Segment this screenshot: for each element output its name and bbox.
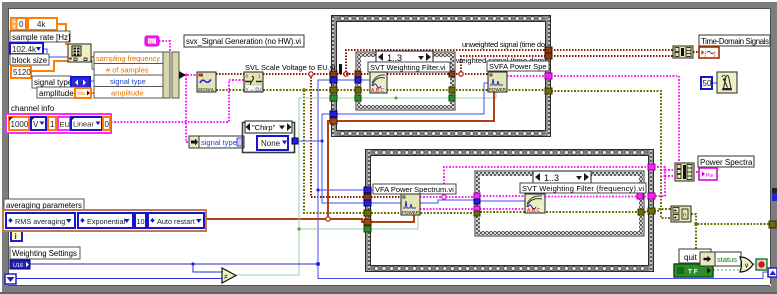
svg-text:10: 10 — [137, 217, 145, 226]
svg-text:A,B,C: A,B,C — [527, 208, 540, 214]
black bar marker — [339, 64, 342, 74]
case structure 2 (SVT weighting frequency) — [475, 171, 644, 236]
indicator Time-Domain Signals terminal — [699, 47, 719, 58]
wire error yellow case2 to seq2 tunnel — [644, 211, 648, 212]
numeric constant 50 — [701, 77, 712, 89]
svg-text:# of samples: # of samples — [106, 66, 149, 75]
seq1 left tunnel maroon unweighted — [330, 71, 337, 77]
wire magenta inside case2 to SVT freq icon — [480, 195, 525, 197]
wire error yellow seq2 tunnel to case2 — [371, 212, 475, 214]
junction green below SVT icon — [395, 97, 398, 100]
svg-text:POWER: POWER — [402, 210, 420, 215]
wire rust up to sequence1 tunnel — [328, 121, 331, 219]
case1 tunnel green left — [355, 95, 361, 101]
svg-text:status: status — [717, 255, 737, 264]
svg-text:"Chirp": "Chirp" — [252, 123, 276, 132]
wire blue enum const to bundle row3 — [90, 80, 94, 82]
case structure 1 (SVT weighting) — [356, 52, 455, 110]
wire maroon waveform branch down to sequence2 — [311, 77, 365, 197]
wire maroon unweighted to build array in1 — [551, 49, 673, 51]
wire maroon build array to time-domain indicator — [693, 51, 699, 53]
seq1 left tunnel yellow error — [330, 87, 337, 93]
wire error yellow across case2 — [480, 211, 639, 213]
frame tunnel yellow error out — [769, 221, 776, 228]
vi icon SVFA Power Spectrum — [488, 72, 507, 92]
numeric constant 5120 — [11, 66, 31, 78]
control terminal quit TF — [674, 264, 713, 277]
flat sequence structure 2 (bottom) — [365, 149, 654, 272]
wire orange 5120 to config vi — [31, 61, 68, 71]
svg-text:signal type: signal type — [110, 77, 146, 86]
svg-text:VFA Power Spectrum.vi: VFA Power Spectrum.vi — [375, 185, 454, 194]
wire error yellow signal gen to V-EU — [216, 89, 244, 91]
svg-text:sample rate [Hz]: sample rate [Hz] — [12, 33, 70, 42]
junction magenta row3 — [663, 174, 666, 177]
case2 tunnel yellow right — [638, 209, 644, 215]
svg-text:50: 50 — [703, 79, 712, 88]
svg-text:i: i — [15, 232, 17, 241]
wire maroon SVT out to SVFA — [387, 73, 488, 75]
wire rust seq2 tunnel to VFA bottom — [371, 215, 414, 222]
wire config vi to bundle row2 — [91, 60, 94, 69]
wire blue inside seq1 under case to SVFA — [337, 83, 488, 114]
wire blue chirp case output — [297, 140, 322, 142]
case1 selector label — [376, 51, 433, 63]
seq1 left tunnel rust — [330, 118, 337, 124]
svg-text:Linear: Linear — [73, 120, 94, 129]
wire blue branch to sequence2 tunnel — [318, 189, 365, 191]
svg-text:Pw: Pw — [706, 173, 713, 179]
svg-text:Power Spectra: Power Spectra — [700, 158, 753, 167]
wire magenta seq2 tunnels to power spectra build array — [654, 167, 665, 196]
seq2 left tunnel rust — [364, 219, 371, 225]
case structure chirp — [243, 121, 295, 153]
label averaging parameters — [4, 199, 84, 210]
ring constant 102.4k — [10, 43, 43, 54]
wire blue weighting selector from U16 net down left of sequence1 — [318, 80, 768, 279]
right shift register — [768, 268, 777, 277]
seq1 left tunnel green — [330, 95, 337, 101]
svg-text:sampling frequency: sampling frequency — [96, 54, 160, 63]
svg-text:signal type: signal type — [201, 138, 237, 147]
junction blue u16 — [191, 262, 194, 265]
label quit — [679, 249, 711, 263]
wire orange config vi to bundle row1 — [91, 56, 94, 58]
iteration terminal i — [11, 230, 22, 241]
ring constant None inside chirp case — [257, 136, 288, 150]
wire magenta VFA lower out to case2 — [420, 208, 475, 210]
wire rust to sequence2 tunnel — [328, 219, 365, 222]
wire blue sequence1 tunnel to sequence2 tunnel — [322, 114, 365, 203]
wire magenta TD6 constant to bundle — [159, 41, 170, 52]
junction error yellow — [694, 222, 698, 226]
case1 tunnel maroon right — [449, 71, 455, 77]
svg-text:4k: 4k — [37, 20, 46, 29]
vi icon wait until next ms multiple — [717, 72, 737, 93]
wire maroon waveform V-EU to sequence1 tunnel — [263, 73, 331, 75]
case2 tunnel magenta right — [637, 193, 643, 199]
svg-text:EU: EU — [60, 120, 70, 129]
svg-text:∨: ∨ — [744, 263, 749, 270]
label svx_Signal Generation (no HW).vi — [184, 35, 304, 47]
svg-text:0: 0 — [105, 120, 110, 129]
wire blue seq2 tunnel to case2 — [371, 200, 475, 203]
seq2 right tunnel magenta lower — [648, 193, 655, 199]
wire blue branch to comparator top input — [193, 264, 222, 272]
vi icon VFA Power Spectrum — [401, 194, 420, 215]
wire blue inside seq1 to SVT icon — [337, 79, 370, 81]
svg-text:svx_Signal Generation (no HW).: svx_Signal Generation (no HW).vi — [186, 37, 301, 46]
svg-text:V: V — [33, 120, 39, 129]
case2 tunnel blue left — [474, 199, 480, 204]
wire maroon dotted weighted signal tap — [461, 56, 545, 72]
vi icon SVT Weighting Filter — [370, 72, 387, 94]
label block size — [10, 54, 49, 65]
wire boolean status to or gate — [741, 259, 746, 261]
svg-text:Time-Domain Signals: Time-Domain Signals — [701, 37, 769, 46]
cluster averaging parameters — [3, 210, 206, 231]
label SVT Weighting Filter.vi — [368, 62, 450, 72]
svg-text:5120: 5120 — [13, 68, 31, 77]
svg-text:Exponential: Exponential — [87, 217, 126, 226]
wire error yellow seq1 out turning down — [551, 91, 671, 218]
clipped indicator on right frame — [772, 188, 777, 201]
svg-text:n: n — [683, 213, 686, 219]
wire rust inside seq1 to SVFA averaging input — [337, 92, 494, 121]
wire error yellow build array2 out to frame tunnel and status — [691, 214, 770, 224]
channel info cluster constant — [6, 114, 111, 133]
seq1 right tunnel maroon unweighted out — [545, 47, 552, 53]
seq2 left tunnel green — [364, 226, 371, 232]
typedef constant TD6 magenta — [145, 36, 159, 46]
wire blue left shift register to comparator bottom input — [16, 278, 222, 280]
breakpoint circle magenta VFA — [442, 195, 446, 199]
wire orange 4k to config vi — [57, 24, 68, 44]
wire maroon weighted to build array in2 — [551, 55, 673, 57]
wire magenta lower inside case2 — [480, 208, 525, 210]
junction magenta row2 — [663, 168, 666, 171]
svg-text:SVFA Power Spe: SVFA Power Spe — [489, 62, 547, 71]
vi icon SVL scale voltage to EU — [244, 72, 263, 92]
wire blue 50 to wait ms — [712, 82, 717, 84]
junction blue seq2 branch — [316, 188, 319, 191]
label status indicator — [715, 252, 741, 266]
case1 tunnel maroon left — [355, 71, 361, 77]
wire blue 102.4k ring to config vi — [43, 49, 68, 57]
vi icon svx signal generation — [197, 72, 216, 92]
wire boolean or gate to stop terminal — [753, 263, 756, 265]
wire maroon seq2 tunnel to VFA icon — [371, 196, 401, 198]
wire blue seq2 tunnel to VFA icon top — [371, 190, 400, 194]
wire error yellow seq2 out to build array2 — [654, 209, 671, 211]
left shift register — [5, 274, 16, 284]
svg-text:≠: ≠ — [224, 274, 228, 281]
build array spectra collector yellow — [671, 206, 691, 222]
svg-text:U16: U16 — [13, 263, 23, 269]
svg-text:0: 0 — [19, 20, 24, 29]
build array time-domain — [673, 46, 693, 58]
or gate — [740, 257, 753, 272]
svg-text:POWER: POWER — [489, 87, 507, 92]
comparator not equal — [222, 268, 236, 283]
wire green inside seq1 to SVFA error in — [337, 92, 496, 98]
seq1 left tunnel blue — [330, 77, 337, 83]
unbundle status node — [700, 252, 715, 266]
wire error yellow branch down to sequence2 — [304, 90, 365, 213]
case2 selector label — [533, 171, 591, 183]
wire magenta VFA out to case2 — [420, 196, 475, 198]
case1 tunnel blue left — [355, 77, 361, 83]
vi icon config (build waveform) — [68, 44, 91, 62]
seq2 left tunnel blue lower — [364, 200, 371, 206]
wire magenta branch row3 — [665, 175, 675, 177]
svg-text:1: 1 — [50, 120, 55, 129]
seq1 left tunnel blue lower — [330, 111, 337, 117]
case2 tunnel yellow left — [474, 211, 480, 216]
breakpoint circle on rust wire — [326, 217, 330, 221]
case2 tunnel magenta left lower — [474, 206, 480, 211]
svg-text:averaging parameters: averaging parameters — [6, 201, 82, 210]
svg-text:1..3: 1..3 — [544, 173, 559, 183]
case1 tunnel yellow right — [449, 87, 455, 93]
wire maroon waveform signal gen to V-EU — [216, 73, 244, 75]
wire error yellow down to status unbundle — [696, 224, 700, 259]
breakpoint circle weighted tap — [459, 72, 463, 76]
wire magenta spectrum long wire down right side — [551, 76, 679, 164]
wire magenta branch row2 — [665, 169, 675, 171]
svg-text:V → EU: V → EU — [246, 86, 262, 91]
DBL constant amplitude — [75, 88, 91, 98]
chirp case output tunnel blue — [292, 138, 298, 144]
vi icon SVT Weighting Filter frequency — [525, 194, 545, 214]
wire magenta bundle out to signal generation vi — [184, 74, 197, 76]
junction blue chirp case joins — [320, 139, 323, 142]
seq2 left tunnel yellow — [364, 210, 371, 216]
loop condition stop terminal — [756, 259, 767, 270]
junction green — [297, 227, 300, 230]
wire magenta SVFA spectrum output to right tunnel — [507, 75, 545, 77]
build array power spectra — [675, 163, 694, 181]
wire maroon dotted unweighted signal tap — [346, 50, 545, 72]
wire orange DBL const to bundle row4 — [91, 92, 94, 94]
wire boolean quit to or gate — [713, 267, 746, 270]
wire error yellow V-EU to sequence1 tunnel — [263, 89, 331, 91]
svg-text:None: None — [261, 139, 281, 148]
seq2 right tunnel yellow — [648, 208, 655, 214]
svg-text:SVT Weighting Filter (frequenc: SVT Weighting Filter (frequency).vi — [522, 184, 644, 193]
wire maroon inside seq1 to SVT case — [337, 73, 370, 75]
svg-text:block size: block size — [12, 56, 48, 65]
svg-text:Auto restart: Auto restart — [157, 217, 195, 226]
svg-text:unweighted signal (time do: unweighted signal (time do — [462, 40, 545, 49]
label Time-Domain Signals — [699, 35, 770, 46]
numeric spin control 0 — [11, 18, 26, 30]
seq2 right tunnel magenta top — [648, 164, 655, 170]
svg-text:channel info: channel info — [11, 104, 55, 113]
case2 tunnel magenta left — [474, 193, 480, 199]
svg-text:signal type: signal type — [34, 78, 73, 87]
bundle by name node — [94, 52, 186, 98]
svg-text:A,B,C: A,B,C — [371, 88, 384, 94]
seq1 right tunnel maroon weighted out — [545, 53, 552, 59]
case1 tunnel yellow left — [355, 87, 361, 93]
case1 tunnel green right — [449, 95, 455, 101]
svg-text:quit: quit — [684, 253, 698, 262]
wire magenta SVT freq out across case2 — [545, 196, 648, 198]
svg-text:Weighting Settings: Weighting Settings — [12, 249, 77, 258]
control terminal U16 weighting — [10, 260, 30, 269]
wire magenta bundle out down to signal type local variable — [186, 75, 189, 142]
wire magenta channel info cluster to V-EU vi — [111, 80, 244, 122]
wire rust cluster averaging params to sequence1 — [206, 218, 328, 220]
svg-text:SIGNAL: SIGNAL — [198, 87, 215, 92]
breakpoint circle unweighted tap — [344, 72, 348, 76]
local variable signal type — [189, 136, 244, 148]
label SVT Weighting Filter (frequency).vi — [520, 183, 646, 193]
svg-text:amplitude: amplitude — [111, 89, 144, 98]
svg-text:TD: TD — [149, 39, 154, 44]
label Weighting Settings — [10, 247, 80, 259]
seq1 right tunnel magenta — [545, 73, 552, 79]
label Power Spectra — [698, 156, 754, 167]
svg-text:T F: T F — [688, 269, 698, 276]
svg-text:SVL Scale Voltage to EU.vi: SVL Scale Voltage to EU.vi — [245, 63, 336, 72]
seq1 right tunnel yellow — [545, 88, 552, 94]
seq2 left tunnel blue top — [364, 187, 371, 193]
junction blue U16 joins vertical — [316, 262, 320, 266]
wire magenta riser from VFA to top long run — [444, 167, 648, 197]
svg-text:1000: 1000 — [11, 120, 29, 129]
svg-text:102.4k: 102.4k — [12, 45, 37, 54]
wire blue U16 enum long wire — [30, 263, 318, 265]
wire green branch to sequence2 tunnel — [299, 228, 365, 230]
wire green comparator output up to sequence1 — [236, 98, 331, 275]
label signal type — [32, 76, 73, 88]
wire error yellow inside seq1 across case — [337, 89, 545, 91]
label SVFA Power Spectrum box — [487, 61, 549, 71]
wire blue inside case2 to SVT freq icon — [480, 200, 525, 202]
label amplitude — [37, 87, 75, 98]
junction error yellow — [302, 88, 306, 92]
numeric constant 4k — [28, 18, 57, 30]
enum constant signal type — [71, 77, 90, 88]
wire magenta build array out to power spectra indicator — [693, 171, 699, 173]
svg-text:SVT Weighting Filter.vi: SVT Weighting Filter.vi — [370, 63, 446, 72]
junction magenta at bundle output — [184, 73, 187, 76]
label sample rate [Hz] — [10, 31, 70, 42]
label VFA Power Spectrum.vi — [373, 184, 456, 194]
indicator Power Spectra terminal — [699, 168, 717, 180]
breakpoint circle on maroon wire — [309, 72, 313, 76]
svg-text:RMS averaging: RMS averaging — [15, 217, 65, 226]
svg-text:DBL: DBL — [77, 91, 86, 96]
wire green seq2 tunnel to VFA bottom — [371, 215, 418, 229]
seq2 left tunnel maroon — [364, 194, 371, 200]
svg-text:amplitude: amplitude — [39, 89, 74, 98]
flat sequence structure 1 (top) — [331, 15, 551, 137]
